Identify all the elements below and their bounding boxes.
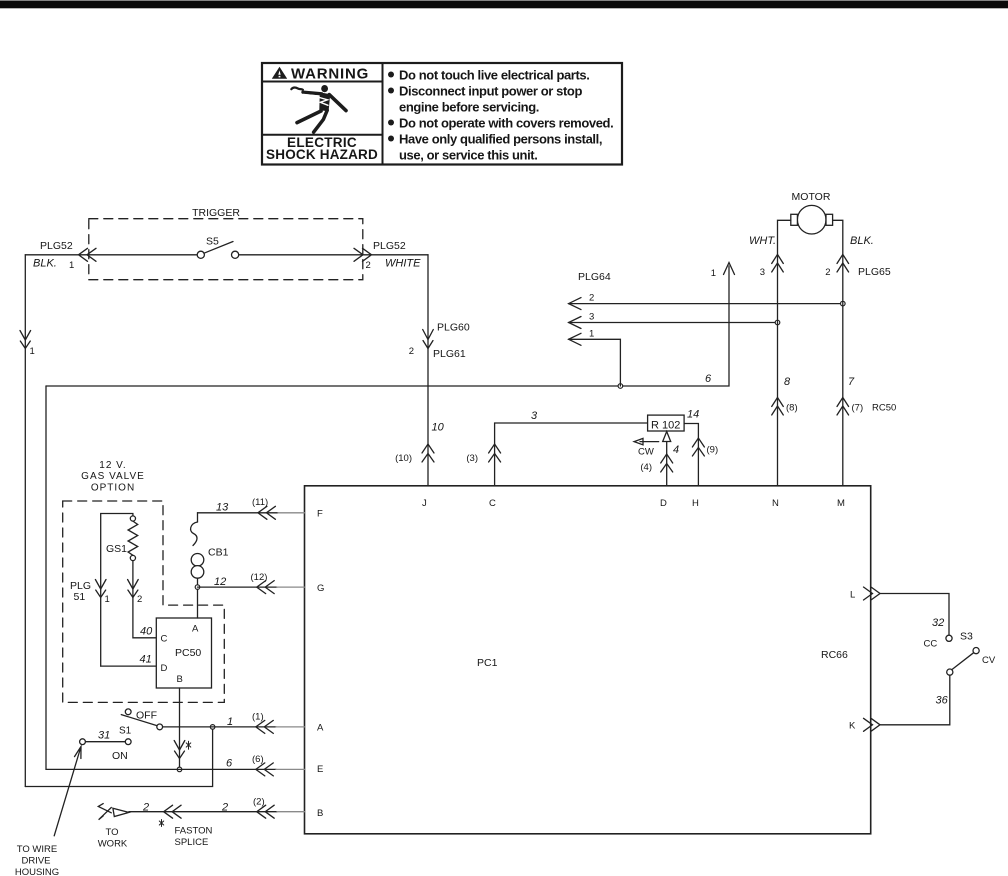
svg-text:GS1: GS1 [106,543,127,555]
svg-text:(9): (9) [707,445,719,456]
svg-text:G: G [317,583,324,594]
svg-text:40: 40 [140,626,153,638]
svg-text:B: B [177,674,183,685]
wire: S5 to PLG52-2 [239,254,428,256]
faston splice arrow [164,805,182,818]
svg-text:(8): (8) [786,403,798,414]
wire: PLG64-2 to BLK line [569,303,843,305]
svg-text:1: 1 [30,346,35,357]
connector plug arrow PLG60/PLG61 [423,330,434,349]
svg-text:(3): (3) [466,453,478,464]
wire 6: horizontal run [46,266,729,386]
svg-text:PC50: PC50 [175,647,201,659]
svg-text:3: 3 [589,312,594,323]
svg-text:CW: CW [638,447,654,458]
connector arrow (7) RC50 [837,398,849,416]
note mark (faston) [159,820,163,827]
svg-text:(4): (4) [640,462,652,473]
svg-text:32: 32 [932,617,944,629]
connector arrow K (RC66) [864,718,881,731]
svg-text:51: 51 [74,591,86,603]
svg-text:L: L [850,590,855,601]
wire: PC50 B drop [179,688,181,767]
wire 6: E pin lead [46,768,276,770]
svg-text:R 102: R 102 [651,420,680,432]
svg-text:SHOCK HAZARD: SHOCK HAZARD [266,147,378,162]
note mark (B drop) [186,741,191,749]
connector arrow (10) into J [422,444,434,462]
wire: motor WHT lead [778,220,791,486]
svg-text:PLG60: PLG60 [437,322,470,334]
svg-text:(11): (11) [252,497,268,508]
wire 12: G pin lead [198,586,278,588]
svg-text:41: 41 [140,654,152,666]
svg-text:Have only qualified persons in: Have only qualified persons install, [399,131,602,146]
svg-text:F: F [317,509,323,520]
connector arrow PLG64 pin3 [569,317,581,329]
gas valve option dashed enclosure [63,501,225,702]
connector arrow (6) [256,763,273,776]
svg-text:WHT.: WHT. [749,235,776,247]
svg-text:S3: S3 [960,631,973,643]
svg-text:1: 1 [227,716,233,728]
connector arrow PLG65 pin2 [837,254,849,272]
svg-text:12 V.: 12 V. [99,460,126,471]
wire: PLG64-1 down to wire 6 [569,339,621,386]
svg-text:PLG52: PLG52 [40,240,73,252]
svg-text:N: N [772,498,779,509]
wire 36: S3 to K [880,675,950,725]
connector arrow (1) [256,720,273,733]
wire: motor BLK lead [833,220,843,486]
switch S5 [197,236,239,259]
svg-text:J: J [422,498,427,509]
leader arrow to S1 terminal [54,747,81,836]
wire 2: B pin lead [129,811,277,813]
wire: left drop of wire 6 [45,386,47,769]
svg-text:8: 8 [784,376,791,388]
svg-text:2: 2 [137,594,142,605]
motor M1 [791,191,833,234]
svg-text:WORK: WORK [98,839,128,850]
svg-text:36: 36 [936,695,949,707]
svg-text:FASTON: FASTON [175,826,213,837]
work clamp [98,804,129,820]
svg-text:1: 1 [105,594,110,605]
page header bar [0,1,1008,9]
svg-text:H: H [692,498,699,509]
svg-text:Do not touch live electrical p: Do not touch live electrical parts. [399,67,589,82]
svg-text:(1): (1) [252,712,264,723]
svg-text:OPTION: OPTION [91,483,135,494]
junction PLG64-3 / WHT [775,320,780,325]
svg-text:2: 2 [221,802,228,814]
svg-text:(7): (7) [852,403,864,414]
wire 32: L to S3 [880,594,949,636]
svg-text:TO WIRE: TO WIRE [17,844,57,855]
svg-text:D: D [660,498,667,509]
svg-text:GAS VALVE: GAS VALVE [81,471,145,482]
svg-text:10: 10 [432,422,445,434]
wiper arrowhead [663,432,671,442]
svg-text:4: 4 [673,444,679,456]
svg-text:RC50: RC50 [872,403,896,414]
svg-text:2: 2 [589,293,594,304]
warning bullet text [388,67,613,162]
warning label [262,63,622,165]
connector arrow (4) into D [661,454,673,472]
svg-text:1: 1 [69,260,74,271]
svg-text:(6): (6) [252,754,264,765]
svg-text:use, or service this unit.: use, or service this unit. [399,147,537,162]
connector arrow PLG65 pin3 [772,254,784,272]
junction on A wire [210,725,215,730]
switch S1 [80,709,163,762]
svg-text:WHITE: WHITE [385,258,421,270]
svg-text:BLK.: BLK. [33,258,57,270]
svg-text:(2): (2) [253,797,265,808]
connector arrow (8) RC50 [772,398,784,416]
connector arrow (9) into H [692,438,704,456]
switch S3 [924,631,996,676]
svg-text:(12): (12) [251,572,268,583]
circuit breaker CB1 [191,513,229,585]
svg-text:2: 2 [142,802,149,814]
svg-text:3: 3 [760,267,765,278]
svg-text:PLG52: PLG52 [373,240,406,252]
svg-text:PC1: PC1 [477,657,498,669]
svg-text:2: 2 [366,260,371,271]
svg-text:TRIGGER: TRIGGER [192,207,240,219]
svg-text:WARNING: WARNING [291,66,369,83]
electric shock figure [291,85,346,132]
svg-text:1: 1 [589,329,594,340]
svg-text:PLG61: PLG61 [433,348,466,360]
svg-text:A: A [317,723,324,734]
CW direction arrow [634,438,659,444]
svg-text:SPLICE: SPLICE [175,837,209,848]
wire 4: R102 wiper to D pin [666,431,668,486]
wire 13: F pin lead [198,512,279,514]
svg-text:C: C [489,498,496,509]
svg-text:E: E [317,764,323,775]
svg-text:DRIVE: DRIVE [21,856,50,867]
svg-text:PLG64: PLG64 [578,271,611,283]
wire: junction to PC50 A [197,589,199,618]
connector arrow L (RC66) [864,587,881,600]
svg-text:RC66: RC66 [821,649,848,661]
svg-text:14: 14 [687,409,699,421]
svg-text:engine before servicing.: engine before servicing. [399,99,539,114]
connector arrow PLG64 pin2 [569,298,581,310]
svg-text:K: K [849,721,856,732]
warning triangle icon [272,67,287,79]
svg-text:6: 6 [226,758,233,770]
svg-text:BLK.: BLK. [850,235,874,247]
connector arrow (12) [257,581,275,594]
svg-text:6: 6 [705,373,712,385]
wire 40: GS1 to PC50 C [133,561,156,638]
svg-text:Disconnect input power or stop: Disconnect input power or stop [399,83,582,98]
wire 41: PLG51 to PC50 D [101,665,157,667]
wire 14: R102 to H pin [684,424,698,486]
svg-text:D: D [161,663,168,674]
PC1 board outline [305,486,871,834]
connector arrow PLG64 pin1 [569,333,581,345]
svg-text:2: 2 [409,346,414,357]
wire: PLG52-1 to S5 [25,254,197,256]
junction wire6 / PLG64-1 [618,384,623,389]
svg-text:S1: S1 [119,726,132,737]
svg-text:CC: CC [924,639,938,650]
svg-text:13: 13 [216,502,229,514]
PC50 module [156,618,211,688]
junction CB1 / G wire [195,585,200,590]
svg-text:B: B [317,808,323,819]
svg-text:C: C [161,634,168,645]
gas valve option label [81,460,145,494]
wire: PLG51 top link [101,514,133,667]
svg-text:(10): (10) [395,453,412,464]
svg-text:1: 1 [711,268,716,279]
wire: PLG64-3 to WHT line [569,322,778,324]
svg-text:S5: S5 [206,236,219,248]
trigger dashed enclosure [89,207,363,280]
connector arrow (2) [257,805,275,818]
connector arrow PLG52 pin1 [79,248,97,261]
svg-text:ON: ON [112,750,128,762]
svg-text:Do not operate with covers rem: Do not operate with covers removed. [399,115,613,130]
wire 3: C pin to R102 [495,423,648,486]
potentiometer R102 [648,415,685,431]
gas solenoid GS1 [106,516,138,561]
connector arrow PLG52 pin2 [354,248,372,261]
connector arrow (11) [258,506,276,519]
junction B drop / E wire [177,767,182,772]
svg-text:MOTOR: MOTOR [792,191,831,203]
svg-text:12: 12 [214,576,226,588]
arrow up pin 1 (motor plug) [724,263,735,275]
svg-text:PLG65: PLG65 [858,266,891,278]
svg-text:M: M [837,498,845,509]
svg-text:HOUSING: HOUSING [15,867,59,876]
svg-text:7: 7 [848,376,855,388]
connector arrow (3) into C [489,444,501,462]
wire: BLK lead down left side [24,255,26,787]
wire 1: S1 to A pin [163,726,276,728]
junction PLG64-2 / BLK [841,301,846,306]
plug arrow on B drop [174,741,185,759]
svg-text:A: A [192,624,199,635]
connector plug arrow pin1 (left wire) [20,331,31,349]
wire: bottom loop to S1 branch [25,727,212,787]
connector plug arrow PLG51 pin1 [95,580,106,598]
wire: WHITE lead from trigger down to J [427,255,429,486]
connector plug arrow PLG51 pin2 [128,580,139,598]
svg-text:CB1: CB1 [208,547,229,559]
svg-text:TO: TO [105,827,118,838]
svg-text:CV: CV [982,655,996,666]
svg-text:31: 31 [98,730,110,742]
svg-text:2: 2 [825,267,830,278]
svg-text:3: 3 [531,410,538,422]
